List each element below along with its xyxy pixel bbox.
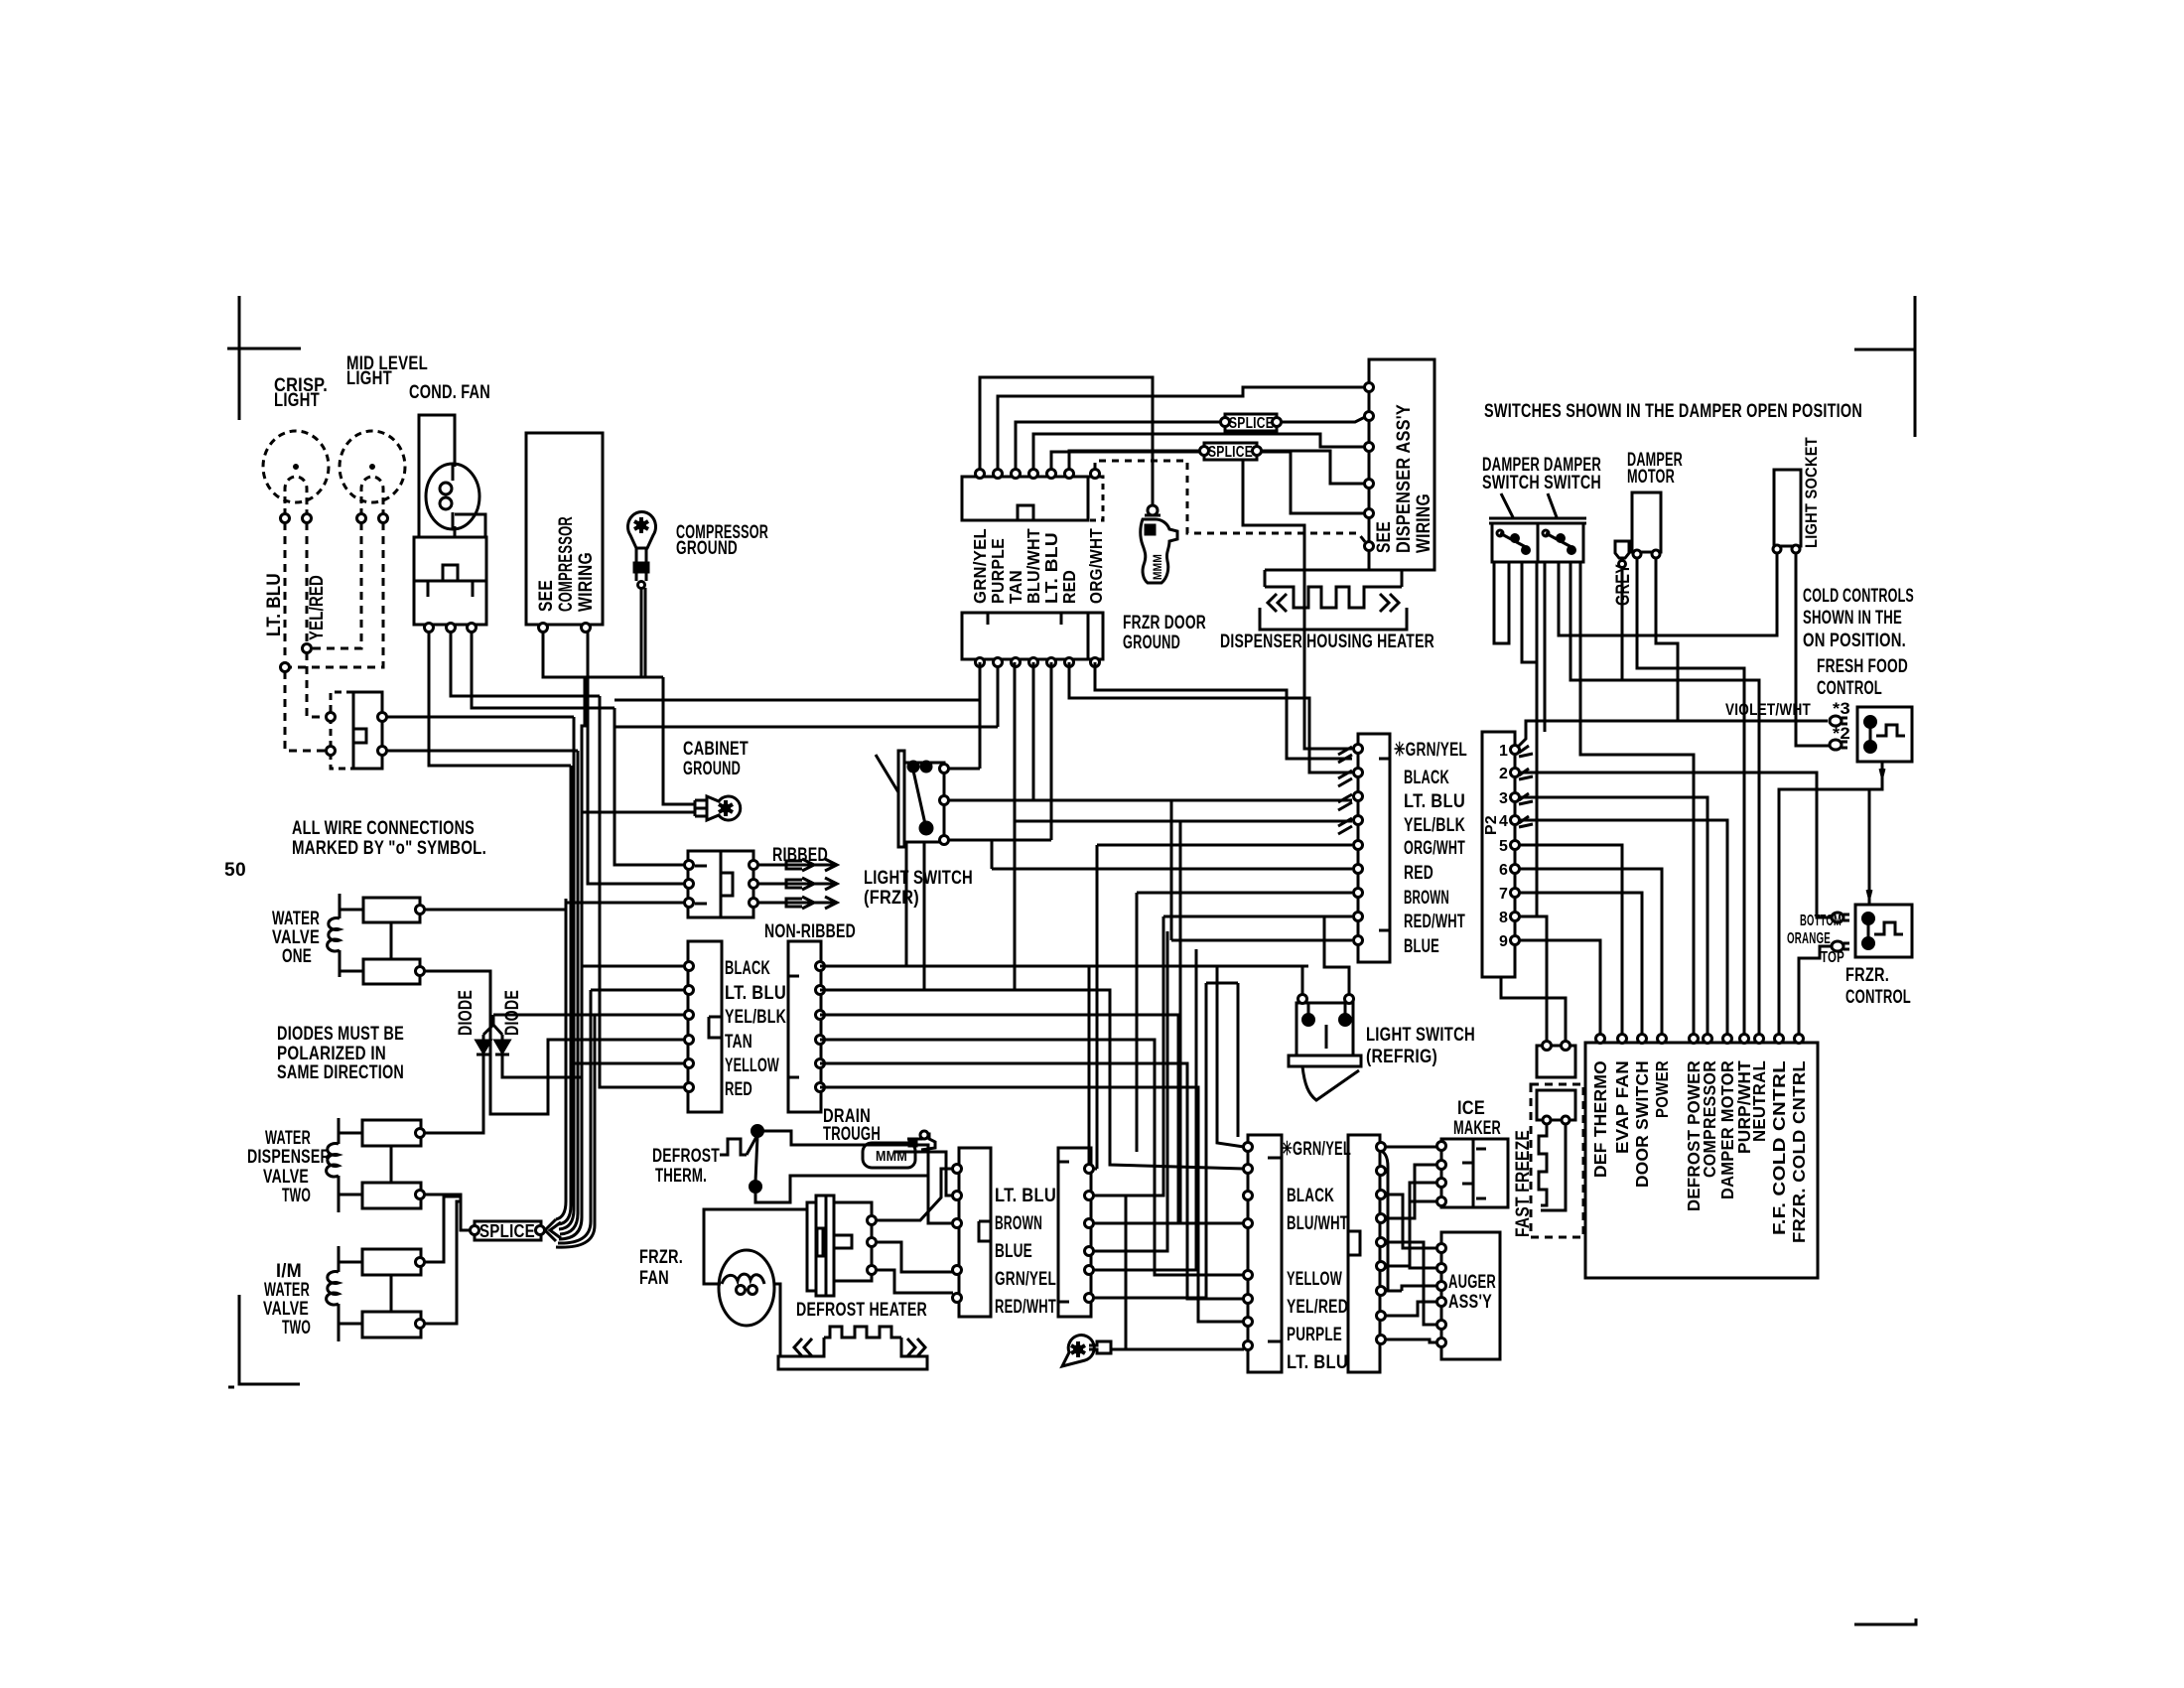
svg-text:*3: *3 [1833, 699, 1850, 718]
svg-text:ORG/WHT: ORG/WHT [1404, 838, 1465, 859]
svg-text:WATER: WATER [264, 1280, 310, 1301]
wire dashed to light switch upper [307, 652, 327, 717]
wire purp/wht column [1637, 558, 1744, 1035]
svg-text:YEL/RED: YEL/RED [307, 575, 328, 640]
svg-text:FRZR.: FRZR. [1845, 965, 1889, 986]
wire i/m valve lower junction [424, 1201, 461, 1324]
wire switch frzr feeds [949, 662, 980, 769]
svg-text:RIBBED: RIBBED [772, 845, 828, 866]
svg-text:NEUTRAL: NEUTRAL [1749, 1060, 1769, 1142]
switch LIGHT SWITCH (REFRIG) [1297, 1003, 1353, 1055]
wire light socket right pin [1796, 553, 1830, 746]
wire compressor ground twin leads [641, 588, 695, 804]
wire long horizontal y732 [614, 662, 998, 727]
wire ff cold cntrl column [1779, 789, 1869, 1035]
svg-text:RED: RED [1059, 570, 1079, 604]
wire evap ground to lt.blu pin [1111, 1196, 1244, 1349]
svg-text:WIRING: WIRING [1414, 493, 1434, 553]
svg-text:RED/WHT: RED/WHT [1404, 912, 1465, 932]
svg-text:DIODE: DIODE [456, 990, 477, 1036]
node junction on lt.blu [281, 663, 290, 672]
switch damper switch assembly [1489, 518, 1586, 523]
svg-text:LT. BLU: LT. BLU [725, 983, 786, 1004]
connector grey plug [1615, 541, 1629, 558]
svg-text:COMPRESSOR: COMPRESSOR [556, 516, 577, 612]
svg-text:TWO: TWO [282, 1318, 311, 1338]
connector 6-pin left half [688, 941, 722, 1112]
wire therm terminal3 chain [877, 1270, 953, 1293]
splice SPLICE (left) [475, 1221, 541, 1240]
heater DEFROST HEATER element [824, 1327, 901, 1337]
svg-text:(FRZR): (FRZR) [864, 888, 919, 909]
svg-text:MMM: MMM [876, 1148, 907, 1165]
svg-text:ORG/WHT: ORG/WHT [1086, 528, 1106, 604]
svg-text:LT. BLU: LT. BLU [995, 1186, 1056, 1206]
svg-text:BLU/WHT: BLU/WHT [1024, 528, 1043, 604]
svg-text:VALVE: VALVE [263, 1167, 309, 1188]
valve WATER DISPENSER VALVE TWO [338, 1118, 341, 1212]
svg-text:BLACK: BLACK [725, 958, 770, 979]
wire defrost power column [1580, 562, 1694, 1035]
svg-text:50: 50 [224, 860, 246, 881]
wire light switch refrig feeds [1302, 916, 1349, 994]
svg-text:*2: *2 [1833, 724, 1850, 743]
svg-text:WIRING: WIRING [576, 552, 597, 612]
svg-text:FRZR.: FRZR. [639, 1247, 683, 1268]
svg-text:ORANGE: ORANGE [1787, 930, 1831, 947]
wire P2 pin3 to compressor [1520, 797, 1707, 1035]
valve I/M WATER VALVE TWO [338, 1246, 341, 1341]
wire damper motor pin2 [1656, 558, 1678, 721]
svg-text:WATER: WATER [272, 909, 320, 929]
wire violet/wht run [1517, 721, 1828, 748]
wire splice fan-in arrows [556, 899, 566, 1219]
node junction on yel/red [303, 644, 312, 653]
wire defrost therm bottom dot chain [755, 1176, 928, 1202]
svg-text:WATER: WATER [265, 1128, 311, 1149]
wire pin5 to dispenser pin5 [1051, 452, 1364, 513]
thermostat DEFROST THERM. symbol [720, 1139, 747, 1155]
svg-text:LT. BLU: LT. BLU [264, 573, 285, 636]
connector freezer harness right [1348, 1135, 1380, 1372]
svg-text:ONE: ONE [282, 946, 312, 967]
splice SPLICE 2 [1204, 443, 1257, 460]
svg-text:9: 9 [1499, 933, 1508, 950]
svg-text:(REFRIG): (REFRIG) [1366, 1047, 1437, 1067]
svg-text:BROWN: BROWN [995, 1213, 1042, 1234]
box SEE DISPENSER ASS'Y WIRING [1369, 359, 1434, 570]
ground COMPRESSOR GROUND ring terminal [628, 511, 656, 548]
corner mark bottom-left [228, 1295, 300, 1387]
wire light switch frzr bottom drops [906, 842, 924, 990]
svg-text:GREY: GREY [1613, 564, 1634, 606]
wire splice2 to dispenser pin4 [1262, 451, 1364, 484]
svg-text:BOTTOM: BOTTOM [1800, 913, 1842, 929]
wire dashed to light switch lower [285, 671, 327, 751]
wire P2 to fast freeze [1520, 916, 1547, 1042]
svg-text:BROWN: BROWN [1404, 888, 1449, 909]
wire damper switch drops [1494, 562, 1509, 643]
wire long run yellow [571, 1062, 685, 1065]
svg-text:LT. BLU: LT. BLU [1041, 532, 1061, 604]
svg-text:ALL WIRE CONNECTIONS: ALL WIRE CONNECTIONS [292, 818, 475, 839]
wire long run tan chain [424, 971, 685, 1114]
svg-text:FAST FREEZE: FAST FREEZE [1513, 1130, 1534, 1237]
wire pin3 to splice1 [1016, 422, 1220, 470]
resistor FAST FREEZE dashed enclosure [1531, 1084, 1583, 1237]
connector harness middle (grn/yel..blue) [1358, 734, 1390, 962]
connector P2 [1482, 732, 1515, 977]
wire P2 pin6 to power [1520, 869, 1662, 1035]
diode DIODE 1 [477, 1035, 490, 1064]
wire P2 pin5 to evap fan [1520, 845, 1622, 1035]
wire pin4 to dispenser pin3 [1033, 434, 1364, 470]
ground CABINET GROUND ring terminal [695, 800, 707, 816]
drain trough MMM box [863, 1143, 915, 1168]
thermostat FRESH FOOD CONTROL [1857, 707, 1912, 762]
wire P2 pin2 to frzr control bottom [1520, 773, 1834, 917]
box AUGER ASS'Y [1441, 1232, 1500, 1359]
wire pin2 to dispenser pin1 [998, 387, 1364, 470]
svg-text:TOP: TOP [1821, 949, 1844, 966]
svg-text:1: 1 [1499, 743, 1508, 760]
connector ribbed/non-ribbed plug [688, 851, 753, 917]
svg-text:3: 3 [1499, 790, 1508, 807]
wire long run lt blu [591, 989, 685, 992]
svg-text:LIGHT SWITCH: LIGHT SWITCH [864, 868, 973, 889]
svg-text:THERM.: THERM. [655, 1166, 707, 1187]
svg-text:LIGHT SWITCH: LIGHT SWITCH [1366, 1025, 1475, 1046]
svg-text:SEE: SEE [1374, 521, 1395, 553]
svg-text:PURPLE: PURPLE [1287, 1325, 1342, 1345]
svg-text:TAN: TAN [725, 1032, 752, 1053]
svg-text:CONTROL: CONTROL [1845, 987, 1911, 1008]
svg-text:YEL/RED: YEL/RED [1287, 1297, 1348, 1318]
connector freezer harness left (grn/yel..lt blu) [1248, 1135, 1282, 1372]
ground evap ground ring terminal [1062, 1336, 1094, 1366]
wire diode1 to water dispenser valve [424, 1064, 483, 1133]
svg-text:GRN/YEL: GRN/YEL [995, 1269, 1056, 1290]
svg-text:VIOLET/WHT: VIOLET/WHT [1725, 700, 1811, 719]
thermostat FRZR. CONTROL [1855, 905, 1912, 957]
svg-text:GROUND: GROUND [676, 538, 738, 559]
svg-text:VALVE: VALVE [272, 927, 320, 948]
svg-text:5: 5 [1499, 838, 1508, 855]
svg-text:✳GRN/YEL: ✳GRN/YEL [1394, 740, 1467, 761]
wire dashed YEL/RED from crisp light [306, 522, 309, 648]
wire drain trough clip up [893, 1152, 953, 1196]
svg-text:POLARIZED IN: POLARIZED IN [277, 1044, 386, 1064]
switch LIGHT SWITCH (FRZR) [898, 751, 904, 847]
svg-text:LT. BLU: LT. BLU [1287, 1352, 1348, 1373]
svg-text:VALVE: VALVE [263, 1299, 309, 1320]
wire neutral column [1570, 562, 1759, 1035]
svg-text:TROUGH: TROUGH [823, 1124, 881, 1145]
valve WATER VALVE ONE [339, 894, 341, 977]
wire light switch lower to bundle [386, 750, 578, 753]
svg-text:CABINET: CABINET [683, 739, 749, 760]
svg-text:MARKED BY "o" SYMBOL.: MARKED BY "o" SYMBOL. [292, 838, 486, 859]
wire dashed mid light left lead [311, 522, 361, 648]
svg-text:LT. BLU: LT. BLU [1404, 791, 1465, 812]
heater DISPENSER HOUSING HEATER element [1265, 570, 1402, 587]
corner mark top-right [1854, 296, 1915, 437]
wire freezer harness to ice maker / auger [1385, 1146, 1437, 1149]
ground FRZR DOOR ground clip [1148, 505, 1158, 515]
svg-text:ON POSITION.: ON POSITION. [1803, 631, 1906, 651]
svg-text:2: 2 [1499, 766, 1508, 782]
wire center verticals to middle connector [1243, 459, 1352, 749]
svg-text:CONTROL: CONTROL [1817, 678, 1882, 699]
svg-text:MOTOR: MOTOR [1627, 467, 1675, 488]
motor FRZR. FAN [704, 1209, 806, 1284]
wire therm terminal1 chain [877, 1169, 953, 1220]
svg-text:DISPENSER HOUSING HEATER: DISPENSER HOUSING HEATER [1220, 632, 1434, 652]
svg-text:NON-RIBBED: NON-RIBBED [764, 921, 856, 942]
svg-text:YEL/BLK: YEL/BLK [1404, 815, 1465, 836]
svg-text:BLU/WHT: BLU/WHT [1287, 1213, 1348, 1234]
wire fresh food control drop [1869, 762, 1882, 905]
wire therm terminal2 chain [877, 1242, 953, 1272]
splice SPLICE 1 [1225, 414, 1277, 431]
svg-text:DISPENSER ASS'Y: DISPENSER ASS'Y [1394, 404, 1415, 553]
wire dashed pin7 to dispenser pin6 [1095, 461, 1367, 544]
wire long run red [600, 696, 685, 1087]
wire pin1 to frzr door ground [980, 377, 1153, 505]
wire grey drop [1621, 568, 1624, 680]
wire splice1 to dispenser pin2 [1282, 417, 1365, 422]
wire cabinet ground second lead [582, 811, 695, 814]
svg-text:GROUND: GROUND [683, 759, 741, 779]
wire long run yel/blk diode apex [493, 1014, 685, 1017]
svg-text:EVAP FAN: EVAP FAN [1612, 1060, 1632, 1154]
svg-text:COLD CONTROLS: COLD CONTROLS [1803, 586, 1914, 607]
svg-text:RED: RED [1404, 863, 1433, 884]
svg-text:BLUE: BLUE [995, 1241, 1032, 1262]
wire compressor box pin1 [543, 632, 661, 677]
wire long run to connector pin1 black [582, 965, 685, 968]
wire diode2 stub [502, 1064, 582, 1077]
svg-text:MAKER: MAKER [1453, 1118, 1501, 1139]
wire dashed LT. BLU from crisp light [284, 522, 287, 667]
svg-text:YELLOW: YELLOW [725, 1055, 779, 1076]
wire damper switch leader lines [1501, 493, 1557, 517]
connector bottom (frzr door harness lower) [962, 613, 1088, 659]
corner mark bottom-right [1854, 1618, 1916, 1624]
wire relay pin3 to bundle [472, 632, 614, 708]
svg-text:ASS'Y: ASS'Y [1448, 1292, 1492, 1313]
connector 6-pin right half [788, 941, 821, 1112]
svg-text:YEL/BLK: YEL/BLK [725, 1007, 786, 1028]
wire water dispenser valve to splice [424, 1195, 470, 1230]
svg-text:LIGHT: LIGHT [274, 390, 320, 411]
thermostat defrost heater assembly [807, 1202, 816, 1291]
svg-text:SHOWN IN THE: SHOWN IN THE [1803, 608, 1902, 629]
svg-text:DIODE: DIODE [502, 990, 523, 1036]
svg-text:FRZR. COLD CNTRL: FRZR. COLD CNTRL [1789, 1060, 1809, 1243]
svg-text:SWITCHES SHOWN IN THE DAMPER O: SWITCHES SHOWN IN THE DAMPER OPEN POSITI… [1484, 401, 1862, 422]
svg-text:PURPLE: PURPLE [988, 538, 1008, 604]
svg-text:TWO: TWO [282, 1186, 311, 1206]
lamp CRISP LIGHT bulb [263, 431, 329, 515]
connector lt.blu/brown/blue right half [1058, 1148, 1091, 1317]
connector top (frzr door harness upper) [962, 477, 1088, 520]
corner mark top-left [227, 296, 301, 420]
wire frzr cold cntrl column [1799, 946, 1834, 1035]
svg-text:F.F. COLD CNTRL: F.F. COLD CNTRL [1769, 1060, 1789, 1235]
wire i/m valve upper junction [424, 1196, 461, 1262]
svg-text:BLACK: BLACK [1287, 1186, 1334, 1206]
wire defrost therm top dot chain [757, 1131, 953, 1223]
svg-text:✳GRN/YEL: ✳GRN/YEL [1282, 1139, 1351, 1160]
svg-text:P2: P2 [1483, 815, 1500, 835]
svg-text:SPLICE: SPLICE [1208, 444, 1253, 461]
wire diode apex [483, 1015, 502, 1035]
svg-text:YELLOW: YELLOW [1287, 1269, 1342, 1290]
wire ribbed arrows [757, 859, 837, 871]
wire dashed mid light right lead [289, 522, 383, 667]
svg-text:MMM: MMM [1151, 554, 1164, 580]
svg-text:AUGER: AUGER [1448, 1272, 1496, 1293]
svg-text:DOOR SWITCH: DOOR SWITCH [1632, 1060, 1652, 1188]
svg-text:8: 8 [1499, 910, 1508, 926]
svg-text:BLACK: BLACK [1404, 768, 1449, 788]
svg-text:GRN/YEL: GRN/YEL [970, 528, 990, 604]
svg-text:DEFROST HEATER: DEFROST HEATER [796, 1300, 927, 1321]
svg-text:7: 7 [1499, 886, 1508, 903]
svg-text:DEFROST: DEFROST [652, 1146, 720, 1167]
svg-text:LIGHT: LIGHT [346, 368, 392, 389]
svg-text:RED/WHT: RED/WHT [995, 1297, 1056, 1318]
svg-text:SEE: SEE [536, 580, 557, 612]
svg-text:SAME DIRECTION: SAME DIRECTION [277, 1062, 404, 1083]
svg-text:DIODES MUST BE: DIODES MUST BE [277, 1024, 404, 1045]
svg-text:GROUND: GROUND [1123, 633, 1180, 653]
svg-text:4: 4 [1499, 813, 1508, 830]
wire feeds to freezer harness [820, 966, 1244, 1147]
wire bundle 619 to ribbed pin1 [614, 708, 685, 865]
wire pin6 to splice2 [1069, 451, 1199, 470]
wire P2 pin4 to damper motor [1520, 820, 1727, 1035]
svg-text:DEF THERMO: DEF THERMO [1590, 1060, 1610, 1178]
svg-text:SPLICE: SPLICE [479, 1221, 535, 1241]
switch (2-pole door switch) [353, 692, 382, 769]
wire long horizontal y705 [614, 662, 980, 700]
wire relay pin2 to bundle [451, 632, 600, 696]
wire P2 pin9 to def thermo [1520, 940, 1600, 1035]
svg-text:FRESH FOOD: FRESH FOOD [1817, 656, 1908, 677]
motor COND. FAN housing [419, 415, 455, 537]
box SEE COMPRESSOR WIRING [526, 433, 603, 625]
svg-text:COND. FAN: COND. FAN [409, 382, 490, 403]
svg-text:SPLICE: SPLICE [1229, 415, 1274, 432]
svg-text:RED: RED [725, 1079, 752, 1100]
wire right half fan-out [1089, 966, 1308, 1164]
connector lt.blu/brown/blue left half [959, 1148, 991, 1317]
svg-text:FRZR DOOR: FRZR DOOR [1123, 613, 1206, 633]
motor DAMPER MOTOR [1632, 492, 1661, 552]
svg-text:I/M: I/M [276, 1261, 302, 1282]
svg-text:BLUE: BLUE [1404, 936, 1439, 957]
svg-text:SWITCH SWITCH: SWITCH SWITCH [1482, 473, 1601, 493]
svg-text:LIGHT SOCKET: LIGHT SOCKET [1802, 437, 1821, 548]
svg-text:DISPENSER: DISPENSER [247, 1147, 331, 1168]
wire compressor box pin2 to ribbed pin2 [588, 632, 685, 884]
relay box cond fan [414, 537, 486, 625]
svg-text:TAN: TAN [1006, 570, 1025, 604]
svg-text:6: 6 [1499, 862, 1508, 879]
diode DIODE 2 [495, 1035, 509, 1064]
lamp MID LEVEL LIGHT bulb [340, 431, 405, 515]
wire water valve one upper to bundle [424, 903, 685, 910]
wire light switch upper to bundle [386, 716, 574, 719]
wire P2 pin7 to door switch [1520, 893, 1642, 1035]
svg-text:COMPRESSOR: COMPRESSOR [1700, 1060, 1719, 1178]
wire relay pin1 to bundle [429, 632, 571, 766]
svg-text:POWER: POWER [1652, 1060, 1672, 1118]
svg-text:FAN: FAN [639, 1268, 669, 1289]
lamp LIGHT SOCKET [1774, 470, 1801, 546]
connector ICE MAKER [1441, 1139, 1508, 1207]
svg-text:ICE: ICE [1457, 1098, 1485, 1119]
box control board [1585, 1043, 1818, 1278]
